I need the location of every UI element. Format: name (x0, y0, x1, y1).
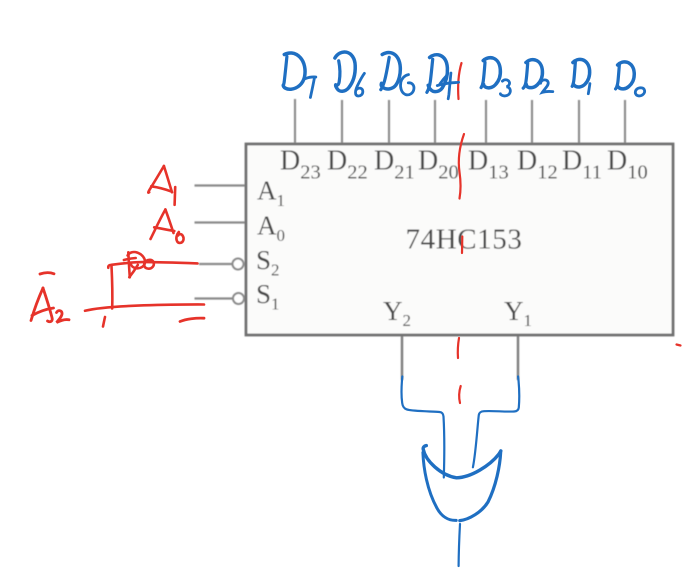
handwritten red crossed-out D0 annotation (108, 252, 197, 277)
red dashed cut line segment 5 (459, 386, 461, 403)
pin A1 wire (195, 184, 246, 186)
red dot right (677, 345, 681, 346)
handwritten red A1 annotation (148, 166, 175, 205)
pin D12 wire (531, 100, 533, 143)
handwritten blue D5 label (381, 53, 414, 95)
blue wire from Y1 to OR gate (473, 377, 519, 468)
pin D20 wire (434, 100, 436, 143)
handwritten blue D7 label (283, 53, 316, 97)
pin D23 wire (294, 99, 296, 143)
pin Y1 wire (517, 336, 519, 380)
svg-text:74HC153: 74HC153 (406, 224, 523, 256)
pin D11 wire (578, 100, 580, 143)
red dashed cut line segment 3 (461, 237, 463, 254)
pin A0 wire (195, 221, 246, 223)
handwritten blue D6 label (335, 52, 365, 96)
handwritten red vertical connector line (110, 266, 113, 309)
inverter bubble S2 (233, 259, 244, 270)
handwritten red A2-bar annotation (31, 273, 69, 323)
pin D13 wire (485, 100, 487, 143)
pin S2 wire (199, 263, 233, 265)
pin D22 wire (341, 100, 343, 143)
handwritten blue D4 label (427, 55, 459, 99)
handwritten red small tick below (103, 317, 105, 327)
handwritten blue D2 label (523, 60, 553, 93)
pin D21 wire (388, 100, 390, 143)
hand-drawn blue OR gate (423, 446, 501, 521)
handwritten red short dash lower right (180, 318, 204, 321)
pin S1 wire (195, 297, 234, 299)
handwritten red long horizontal line to S1 (85, 304, 204, 310)
pin Y2 wire (401, 336, 403, 380)
IC body U1 74HC153 (246, 144, 673, 335)
inverter bubble S1 (233, 293, 244, 304)
blue wire from Y2 to OR gate (402, 377, 445, 478)
handwritten blue D0 label (616, 62, 645, 96)
OR gate output wire (459, 524, 460, 566)
handwritten blue D1 label (572, 59, 590, 93)
handwritten red A0 annotation (151, 210, 184, 243)
red dashed cut line segment 4 (458, 338, 459, 358)
red dashed cut line segment 2 (459, 134, 464, 199)
red dashed cut line segment 1 (458, 63, 461, 99)
pin D10 wire (624, 100, 626, 143)
handwritten blue D3 label (481, 58, 510, 96)
